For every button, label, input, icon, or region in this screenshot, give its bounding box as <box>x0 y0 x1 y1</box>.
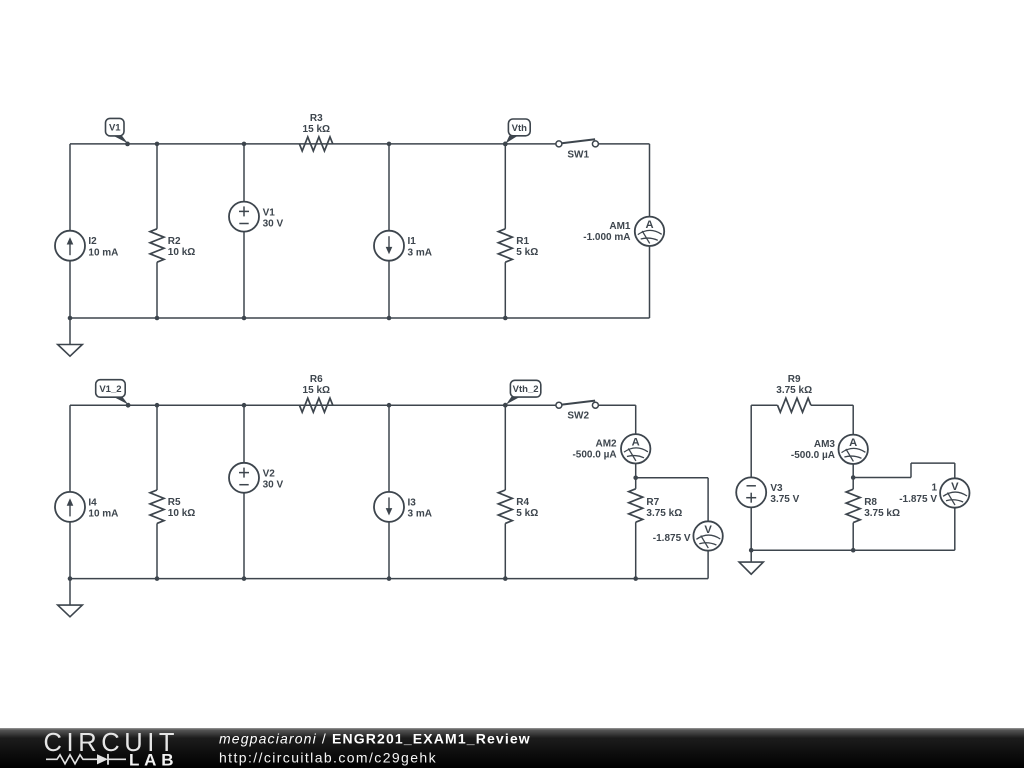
resistor R8 <box>846 489 860 522</box>
wire R2 top lead <box>156 144 158 229</box>
svg-text:I1: I1 <box>408 236 417 247</box>
svg-text:-500.0 µA: -500.0 µA <box>572 450 616 461</box>
resistor R3 <box>299 137 332 151</box>
svg-text:R1: R1 <box>516 236 529 247</box>
CircuitLab logo wordmark CIRCUIT <box>44 729 180 757</box>
wire V1 top lead <box>243 144 245 202</box>
svg-text:5 kΩ: 5 kΩ <box>516 508 538 519</box>
wire voltmeter 1 bottom lead <box>954 508 956 551</box>
wire I4 bottom lead <box>69 522 71 579</box>
wire top rail circuit 1 (node V1 rail) <box>70 143 556 145</box>
label R9 3.75 k&#937; <box>776 374 812 396</box>
svg-text:5 kΩ: 5 kΩ <box>516 247 538 258</box>
label R7 3.75 k&#937; <box>646 497 682 519</box>
svg-text:-1.000 mA: -1.000 mA <box>583 232 630 243</box>
voltmeter 1 <box>940 478 969 507</box>
ground circuit 1 <box>58 318 83 356</box>
svg-text:A: A <box>849 437 857 449</box>
label I1 3 mA <box>408 236 432 258</box>
wire I3 bottom lead <box>388 522 390 579</box>
junction bottom I2-gnd <box>68 316 73 321</box>
wire V3 top lead <box>750 405 752 477</box>
node B top dot V1 <box>242 142 247 147</box>
svg-text:R8: R8 <box>864 497 877 508</box>
footer url http://circuitlab.com/c29gehk <box>219 749 437 765</box>
label V2 30 V <box>263 469 284 491</box>
voltage source V1 <box>229 202 259 232</box>
junction bottom R5 <box>155 576 160 581</box>
svg-text:V3: V3 <box>770 483 783 494</box>
node flag Vth <box>503 119 530 146</box>
wire R4 top lead <box>504 405 506 490</box>
svg-text:SW1: SW1 <box>567 149 589 160</box>
svg-text:I2: I2 <box>88 236 97 247</box>
svg-text:15 kΩ: 15 kΩ <box>303 124 330 135</box>
svg-text:R6: R6 <box>310 374 323 385</box>
wire bottom rail circuit 3 <box>751 549 955 551</box>
junction bottom R7 <box>633 576 638 581</box>
svg-text:-1.875 V: -1.875 V <box>899 494 937 505</box>
junction bottom R2 <box>155 316 160 321</box>
svg-text:A: A <box>645 219 653 231</box>
wire junction to voltmeter top <box>636 478 708 522</box>
label AM1 -1.000 mA <box>583 221 631 243</box>
junction top R5 <box>155 403 160 408</box>
svg-text:V1: V1 <box>263 207 276 218</box>
ground circuit 3 <box>739 550 763 574</box>
resistor R9 <box>778 398 811 412</box>
label VM1 -1.875 V <box>653 533 691 544</box>
junction bottom V2 <box>242 576 247 581</box>
current source I1 <box>374 231 404 261</box>
ground circuit 2 <box>58 579 83 617</box>
wire I3 top lead <box>388 405 390 492</box>
svg-text:AM3: AM3 <box>814 439 836 450</box>
wire R8 bottom lead <box>852 523 854 551</box>
svg-text:R4: R4 <box>516 497 529 508</box>
label R2 10 k&#937; <box>168 236 195 258</box>
current source I4 <box>55 492 85 522</box>
junction bottom V1 <box>242 316 247 321</box>
svg-text:3 mA: 3 mA <box>408 247 432 258</box>
wire bottom rail circuit 2 <box>70 578 708 580</box>
switch SW2 <box>556 401 599 409</box>
svg-text:http://circuitlab.com/c29gehk: http://circuitlab.com/c29gehk <box>219 749 437 765</box>
ammeter AM2 <box>621 434 650 463</box>
wire R1 top lead <box>504 144 506 229</box>
wire top rail circuit 3 left <box>751 404 777 406</box>
wire R4 bottom lead <box>504 523 506 578</box>
footer bar <box>0 728 1024 768</box>
node flag V1_2 <box>96 380 131 408</box>
switch SW1 <box>556 139 599 147</box>
junction top I3 <box>387 403 392 408</box>
wire R7 bottom lead <box>635 522 637 578</box>
wire top rail right of SW1 <box>598 143 649 145</box>
node AM2-R7 junction <box>633 476 638 481</box>
wire V2 bottom lead <box>243 493 245 579</box>
label R8 3.75 k&#937; <box>864 497 900 519</box>
svg-text:V1: V1 <box>109 123 121 134</box>
wire V3 bottom lead <box>750 507 752 550</box>
ammeter AM3 <box>839 435 868 464</box>
node AM3-R8 junction <box>851 475 856 480</box>
label R4 5 k&#937; <box>516 497 538 519</box>
wire I1 top lead <box>388 144 390 231</box>
label voltmeter 1 -1.875 V <box>899 483 937 505</box>
wire R7 top lead <box>635 478 637 489</box>
label V3 3.75 V <box>770 483 799 505</box>
wire top rail circuit 2 <box>70 404 556 406</box>
wire left branch upper (I2 top lead) <box>69 144 71 231</box>
svg-text:AM2: AM2 <box>595 439 617 450</box>
label I2 10 mA <box>88 236 118 258</box>
svg-text:1: 1 <box>931 483 937 494</box>
svg-text:3.75 kΩ: 3.75 kΩ <box>864 508 900 519</box>
wire V1 bottom lead <box>243 232 245 318</box>
svg-text:R3: R3 <box>310 113 323 124</box>
node A top dot R2 <box>155 142 160 147</box>
node C top dot I1 <box>387 142 392 147</box>
resistor R4 <box>498 490 512 523</box>
label I3 3 mA <box>408 497 432 519</box>
junction bottom R4 <box>503 576 508 581</box>
CircuitLab logo resistor-diode squiggle <box>46 754 126 765</box>
label R1 5 k&#937; <box>516 236 538 258</box>
svg-text:3.75 V: 3.75 V <box>770 494 799 505</box>
wire AM2 bottom lead <box>635 463 637 477</box>
wire R8 top lead <box>852 478 854 490</box>
label SW2 <box>567 411 589 422</box>
wire V2 top lead <box>243 405 245 463</box>
svg-text:V: V <box>951 481 959 493</box>
junction top V2 <box>242 403 247 408</box>
current source I3 <box>374 492 404 522</box>
wire left branch upper (I4 top lead) <box>69 405 71 492</box>
resistor R5 <box>150 490 164 523</box>
junction bottom R1 <box>503 316 508 321</box>
svg-text:Vth_2: Vth_2 <box>513 384 539 395</box>
current source I2 <box>55 231 85 261</box>
svg-text:LAB: LAB <box>129 750 178 768</box>
svg-text:SW2: SW2 <box>567 411 589 422</box>
label R5 10 k&#937; <box>168 497 195 519</box>
svg-text:megpaciaroni / ENGR201_EXAM1_R: megpaciaroni / ENGR201_EXAM1_Review <box>219 731 531 747</box>
junction bottom I1 <box>387 316 392 321</box>
label AM3 -500.0 &#181;A <box>791 439 836 461</box>
footer title megpaciaroni / ENGR201_EXAM1_Review <box>219 731 531 747</box>
svg-text:3.75 kΩ: 3.75 kΩ <box>646 508 682 519</box>
wire top rail circuit 3 right <box>811 404 853 406</box>
voltage source V3 <box>736 477 766 507</box>
svg-text:10 mA: 10 mA <box>88 509 118 520</box>
resistor R6 <box>299 398 332 412</box>
svg-text:V: V <box>704 524 712 536</box>
junction bottom V3-gnd <box>749 548 754 553</box>
wire I2 bottom lead <box>69 261 71 318</box>
svg-text:30 V: 30 V <box>263 480 284 491</box>
wire AM1 bottom lead <box>649 246 651 318</box>
wire R1 bottom lead <box>504 262 506 318</box>
label SW1 <box>567 149 589 160</box>
junction bottom R8 <box>851 548 856 553</box>
svg-text:AM1: AM1 <box>609 221 631 232</box>
label R3 15 k&#937; <box>303 113 330 135</box>
CircuitLab logo wordmark LAB <box>129 750 178 768</box>
svg-text:V1_2: V1_2 <box>99 384 121 395</box>
label R6 15 k&#937; <box>303 374 330 396</box>
svg-text:V2: V2 <box>263 469 276 480</box>
label I4 10 mA <box>88 497 118 519</box>
svg-text:3.75 kΩ: 3.75 kΩ <box>776 385 812 396</box>
svg-text:I4: I4 <box>88 497 97 508</box>
resistor R7 <box>629 489 643 522</box>
svg-text:30 V: 30 V <box>263 219 284 230</box>
wire voltmeter bottom lead <box>707 551 709 579</box>
wire junction jog to voltmeter 1 <box>853 463 955 478</box>
svg-text:Vth: Vth <box>512 123 528 134</box>
svg-text:3 mA: 3 mA <box>408 509 432 520</box>
label AM2 -500.0 &#181;A <box>572 439 617 461</box>
svg-text:10 kΩ: 10 kΩ <box>168 247 195 258</box>
wire R5 top lead <box>156 405 158 490</box>
ammeter AM1 <box>635 217 664 246</box>
node flag V1 <box>106 118 130 146</box>
wire AM3 bottom lead <box>852 464 854 478</box>
svg-text:10 kΩ: 10 kΩ <box>168 508 195 519</box>
svg-text:R2: R2 <box>168 236 181 247</box>
wire SW2 to AM2 corner <box>635 405 637 434</box>
wire bottom rail circuit 1 <box>70 317 650 319</box>
svg-text:-500.0 µA: -500.0 µA <box>791 450 835 461</box>
svg-text:-1.875 V: -1.875 V <box>653 533 691 544</box>
resistor R2 <box>150 229 164 262</box>
wire R2 bottom lead <box>156 262 158 318</box>
svg-text:R5: R5 <box>168 497 181 508</box>
svg-text:15 kΩ: 15 kΩ <box>303 385 330 396</box>
wire R5 bottom lead <box>156 523 158 578</box>
svg-text:A: A <box>632 437 640 449</box>
junction bottom I4-gnd <box>68 576 73 581</box>
node flag Vth_2 <box>503 380 541 407</box>
voltage source V2 <box>229 463 259 493</box>
wire top rail right of SW2 <box>598 404 635 406</box>
svg-text:I3: I3 <box>408 497 417 508</box>
resistor R1 <box>498 229 512 262</box>
wire AM3 top lead <box>852 405 854 435</box>
voltmeter VM1 <box>693 521 722 550</box>
wire AM1 top lead <box>649 144 651 217</box>
svg-text:R9: R9 <box>788 374 801 385</box>
svg-text:10 mA: 10 mA <box>88 247 118 258</box>
svg-text:R7: R7 <box>646 497 659 508</box>
label V1 30 V <box>263 207 284 229</box>
wire I1 bottom lead <box>388 261 390 318</box>
junction bottom I3 <box>387 576 392 581</box>
